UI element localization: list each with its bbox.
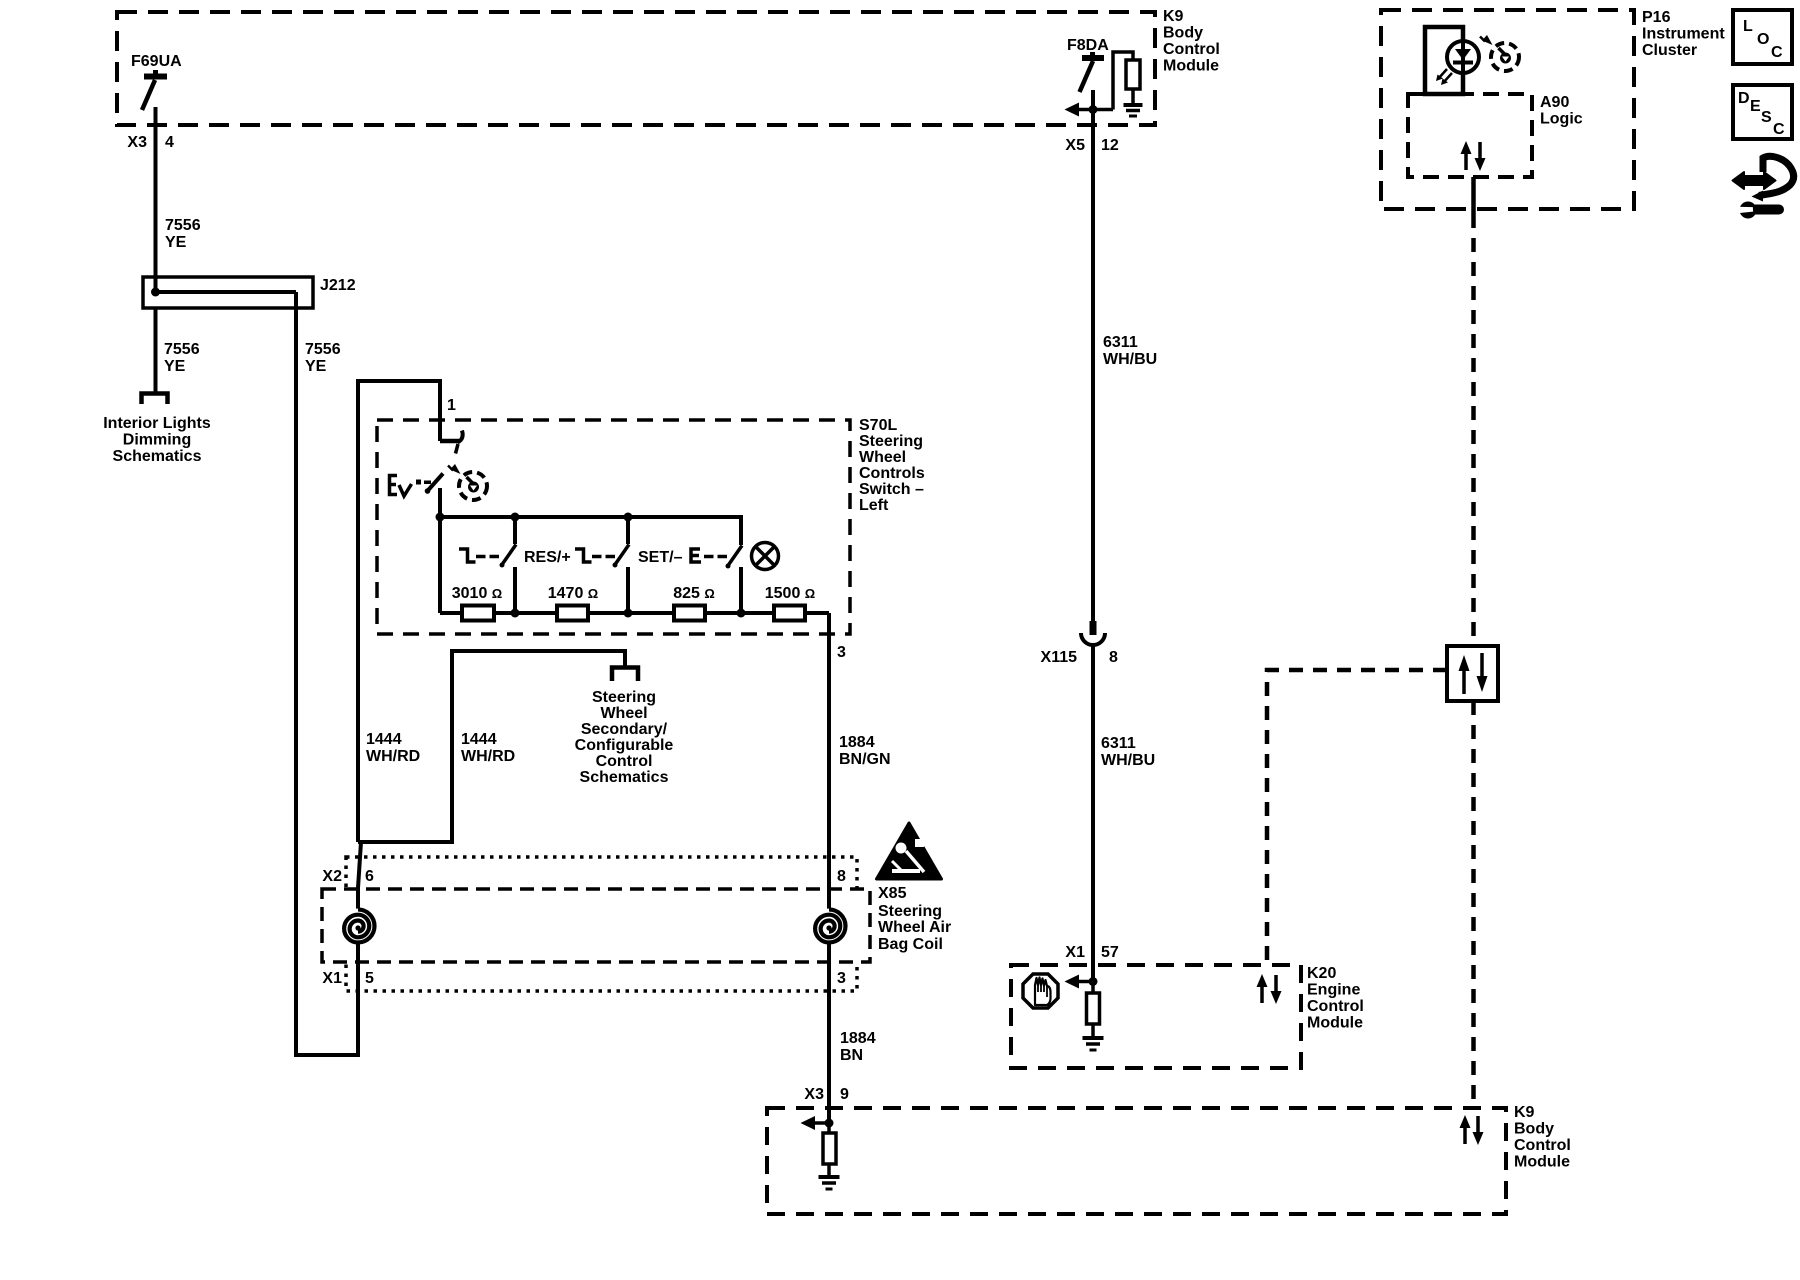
svg-text:F8DA: F8DA xyxy=(1067,37,1109,54)
node bus junction (main switch) xyxy=(436,513,445,522)
svg-text:F69UA: F69UA xyxy=(131,53,182,70)
svg-text:YE: YE xyxy=(305,358,327,375)
mech linkage dashes (branch 3) xyxy=(704,555,727,559)
svg-text:8: 8 xyxy=(837,868,846,885)
S70L Steering Wheel Controls Switch - Left box xyxy=(377,420,850,634)
svg-text:X85: X85 xyxy=(878,885,907,902)
svg-text:BN/GN: BN/GN xyxy=(839,751,891,768)
svg-text:7556: 7556 xyxy=(305,341,341,358)
serial data gateway box xyxy=(1447,646,1498,701)
LED indicator block (P16) xyxy=(1425,27,1479,94)
svg-text:Module: Module xyxy=(1307,1015,1363,1032)
svg-text:L: L xyxy=(1743,18,1753,35)
svg-text:Cluster: Cluster xyxy=(1642,42,1697,59)
svg-text:Switch –: Switch – xyxy=(859,481,924,498)
svg-text:1884: 1884 xyxy=(839,734,875,751)
svg-text:C: C xyxy=(1771,44,1783,61)
branch 2 lower wire xyxy=(626,567,630,613)
svg-text:1: 1 xyxy=(447,397,456,414)
branch 3 lower wire xyxy=(739,567,743,613)
wire F8DA down through X5 xyxy=(1091,90,1095,622)
svg-text:Wheel: Wheel xyxy=(859,449,906,466)
serial data arrows (gateway) xyxy=(1459,653,1488,694)
svg-text:X1: X1 xyxy=(322,970,342,987)
hand icon (K20) xyxy=(1023,974,1058,1008)
svg-text:SET/–: SET/– xyxy=(638,549,683,566)
node bus branch 2 xyxy=(624,513,633,522)
connector X2/X1 dotted box (air bag coil connectors) xyxy=(346,857,857,991)
branch 1 upper stub xyxy=(513,517,517,544)
svg-text:7556: 7556 xyxy=(164,341,200,358)
resistor 1470 ohm xyxy=(557,606,588,621)
svg-text:Left: Left xyxy=(859,497,889,514)
svg-text:K9: K9 xyxy=(1163,8,1184,25)
svg-text:Schematics: Schematics xyxy=(580,769,669,786)
svg-text:4: 4 xyxy=(165,134,174,151)
node ground junction (bottom K9) xyxy=(825,1119,834,1128)
node row branch 2 xyxy=(624,609,633,618)
svg-text:Module: Module xyxy=(1163,58,1219,75)
svg-text:Instrument: Instrument xyxy=(1642,26,1725,43)
K20 Engine Control Module box xyxy=(1011,965,1301,1068)
svg-text:YE: YE xyxy=(165,234,187,251)
resistor (bottom K9 internal) xyxy=(823,1133,836,1164)
svg-text:P16: P16 xyxy=(1642,9,1671,26)
svg-text:X2: X2 xyxy=(322,868,342,885)
svg-text:Wheel: Wheel xyxy=(600,705,647,722)
arrow (wire destination) bottom K9 xyxy=(801,1116,816,1130)
switch blade (branch 3) xyxy=(727,546,742,568)
fixed contact glyph (branch 2) xyxy=(575,549,592,562)
wire junction to resistor (K20) xyxy=(1091,982,1095,994)
svg-text:Configurable: Configurable xyxy=(575,737,674,754)
fuse F8DA xyxy=(1080,52,1105,92)
dashed serial data wire gateway to bottom K9 xyxy=(1471,701,1476,1108)
main switch lower wire xyxy=(438,488,442,517)
arrow (wire destination) K20 xyxy=(1065,975,1080,989)
off-page fork (Interior Lights) xyxy=(142,394,168,405)
air bag coil spiral (left) xyxy=(341,909,376,944)
svg-text:YE: YE xyxy=(164,358,186,375)
svg-text:A90: A90 xyxy=(1540,94,1569,111)
svg-text:1444: 1444 xyxy=(366,731,402,748)
branch 1 lower wire xyxy=(513,567,517,613)
resistor (BCM internal pull) xyxy=(1126,60,1140,89)
LOC legend box xyxy=(1733,10,1792,64)
resistor 1500 ohm xyxy=(774,606,805,621)
svg-text:Module: Module xyxy=(1514,1154,1570,1171)
ground (BCM internal) xyxy=(1124,105,1143,116)
svg-text:S70L: S70L xyxy=(859,417,897,434)
svg-text:3: 3 xyxy=(837,644,846,661)
svg-text:Interior Lights: Interior Lights xyxy=(103,415,211,432)
A90 Logic box xyxy=(1408,94,1532,177)
wire resistor to ground xyxy=(827,1164,831,1177)
Ev actuator glyph xyxy=(390,476,412,497)
node row branch 3 xyxy=(737,609,746,618)
fixed contact glyph (branch 1) xyxy=(459,549,476,562)
svg-text:D: D xyxy=(1738,90,1750,107)
svg-text:Dimming: Dimming xyxy=(123,432,191,449)
air bag warning triangle xyxy=(877,823,942,879)
node K20 input junction xyxy=(1089,977,1098,986)
svg-text:Engine: Engine xyxy=(1307,982,1360,999)
svg-text:Control: Control xyxy=(1307,998,1364,1015)
dashed serial data wire P16 to gateway box xyxy=(1471,214,1476,646)
svg-text:6: 6 xyxy=(365,868,374,885)
wire X115 to K20 (6311 WH/BU) xyxy=(1091,646,1095,981)
wire 1444 WH/RD second branch joining xyxy=(358,651,625,842)
serial data arrows (A90) xyxy=(1461,141,1486,171)
wire junction to resistor xyxy=(827,1123,831,1133)
svg-text:X5: X5 xyxy=(1065,137,1085,154)
svg-text:5: 5 xyxy=(365,970,374,987)
illumination lamp symbol xyxy=(752,543,779,570)
svg-text:WH/BU: WH/BU xyxy=(1101,752,1155,769)
svg-text:Control: Control xyxy=(1514,1137,1571,1154)
svg-text:825 Ω: 825 Ω xyxy=(673,585,715,602)
node row branch 1 xyxy=(511,609,520,618)
svg-text:BN: BN xyxy=(840,1047,863,1064)
wire 7556 YE J212 to X1 pin 5 xyxy=(296,292,361,1055)
svg-text:X1: X1 xyxy=(1065,944,1085,961)
svg-text:C: C xyxy=(1773,121,1785,138)
resistor 3010 ohm xyxy=(462,606,494,621)
svg-text:Controls: Controls xyxy=(859,465,925,482)
svg-text:J212: J212 xyxy=(320,277,356,294)
wire S70L pin 1 to air bag coil (1444 WH/RD) xyxy=(358,381,440,842)
wire A90 to P16 edge (solid) xyxy=(1471,177,1476,214)
svg-text:12: 12 xyxy=(1101,137,1119,154)
DESC legend box xyxy=(1733,85,1792,139)
branch 2 upper stub xyxy=(626,517,630,544)
serial data arrows (K20) xyxy=(1257,974,1282,1004)
X85 component dashed box xyxy=(322,889,870,962)
wire resistor to ground (K20) xyxy=(1091,1024,1095,1038)
node bus branch 1 xyxy=(511,513,520,522)
switch blade (branch 1) xyxy=(501,545,516,567)
bus wire across switch branches xyxy=(440,517,741,545)
wire bus to resistor row (left) xyxy=(438,517,442,613)
svg-text:6311: 6311 xyxy=(1101,735,1136,752)
wire node to internal resistor xyxy=(1113,52,1133,110)
svg-text:3010 Ω: 3010 Ω xyxy=(452,585,502,602)
svg-text:X115: X115 xyxy=(1041,649,1078,666)
svg-text:S: S xyxy=(1761,109,1772,126)
wire S70L pin 3 down (1884 BN/GN) xyxy=(827,613,831,1123)
cruise gauge icon (S70L) xyxy=(448,464,487,500)
svg-text:Steering: Steering xyxy=(592,689,656,706)
svg-text:Wheel Air: Wheel Air xyxy=(878,919,951,936)
svg-text:Schematics: Schematics xyxy=(113,448,202,465)
splice J212 xyxy=(143,277,313,308)
svg-text:Logic: Logic xyxy=(1540,111,1583,128)
in-line connector X115 pin 8 xyxy=(1081,621,1105,645)
svg-text:Control: Control xyxy=(1163,41,1220,58)
dashed serial data wire gateway to K20 xyxy=(1267,670,1447,965)
wire through right of coil xyxy=(827,889,831,1123)
svg-text:X3: X3 xyxy=(127,134,147,151)
svg-text:8: 8 xyxy=(1109,649,1118,666)
wire through left of coil xyxy=(356,888,360,1055)
svg-text:WH/RD: WH/RD xyxy=(366,748,420,765)
svg-text:WH/BU: WH/BU xyxy=(1103,351,1157,368)
switch blade (branch 2) xyxy=(614,545,629,567)
resistor 825 ohm xyxy=(674,606,705,621)
navigation arrows + wrench icon xyxy=(1733,156,1794,218)
svg-text:Control: Control xyxy=(596,753,653,770)
ground (K20) xyxy=(1083,1038,1104,1050)
wire F69UA to J212 (7556 YE) xyxy=(154,107,158,292)
mech linkage dashes (branch 1) xyxy=(476,555,499,559)
K9 Body Control Module box (top) xyxy=(117,12,1155,125)
svg-text:1884: 1884 xyxy=(840,1030,876,1047)
svg-text:X3: X3 xyxy=(804,1086,824,1103)
air bag coil spiral (right) xyxy=(812,909,847,944)
wire resistor to ground xyxy=(1131,89,1135,104)
svg-text:1500 Ω: 1500 Ω xyxy=(765,585,815,602)
svg-text:57: 57 xyxy=(1101,944,1119,961)
main cruise on/off switch contact xyxy=(440,431,463,454)
svg-text:O: O xyxy=(1757,31,1769,48)
P16 Instrument Cluster box xyxy=(1381,10,1634,209)
svg-text:Bag Coil: Bag Coil xyxy=(878,936,943,953)
svg-text:3: 3 xyxy=(837,970,846,987)
mech linkage dashes (branch 2) xyxy=(592,555,615,559)
svg-text:7556: 7556 xyxy=(165,217,201,234)
svg-text:RES/+: RES/+ xyxy=(524,549,571,566)
svg-text:6311: 6311 xyxy=(1103,334,1138,351)
off-page fork (Steering Wheel Secondary) xyxy=(612,668,638,682)
svg-text:Steering: Steering xyxy=(859,433,923,450)
svg-text:Secondary/: Secondary/ xyxy=(581,721,668,738)
svg-text:9: 9 xyxy=(840,1086,849,1103)
svg-text:1470 Ω: 1470 Ω xyxy=(548,585,598,602)
resistor row wire xyxy=(440,611,829,615)
svg-text:Body: Body xyxy=(1514,1121,1554,1138)
svg-text:K9: K9 xyxy=(1514,1104,1535,1121)
svg-text:E: E xyxy=(1750,98,1761,115)
K9 Body Control Module box (bottom) xyxy=(767,1108,1506,1214)
svg-text:WH/RD: WH/RD xyxy=(461,748,515,765)
resistor (K20 internal) xyxy=(1087,993,1100,1024)
fixed contact glyph (branch 3, E-shape) xyxy=(691,549,701,562)
svg-text:Steering: Steering xyxy=(878,903,942,920)
wire J212 to Interior Lights off-page xyxy=(154,308,158,392)
fuse F69UA xyxy=(142,70,167,110)
svg-text:K20: K20 xyxy=(1307,965,1336,982)
arrow (wire destination) at F8DA node xyxy=(1065,103,1080,117)
gauge icon (P16) xyxy=(1480,35,1519,71)
svg-text:Body: Body xyxy=(1163,25,1203,42)
ground (bottom K9) xyxy=(819,1177,840,1189)
svg-text:1444: 1444 xyxy=(461,731,497,748)
main switch blade xyxy=(427,474,444,493)
serial data arrows (bottom K9) xyxy=(1460,1115,1484,1145)
node F8DA output junction xyxy=(1089,105,1098,114)
